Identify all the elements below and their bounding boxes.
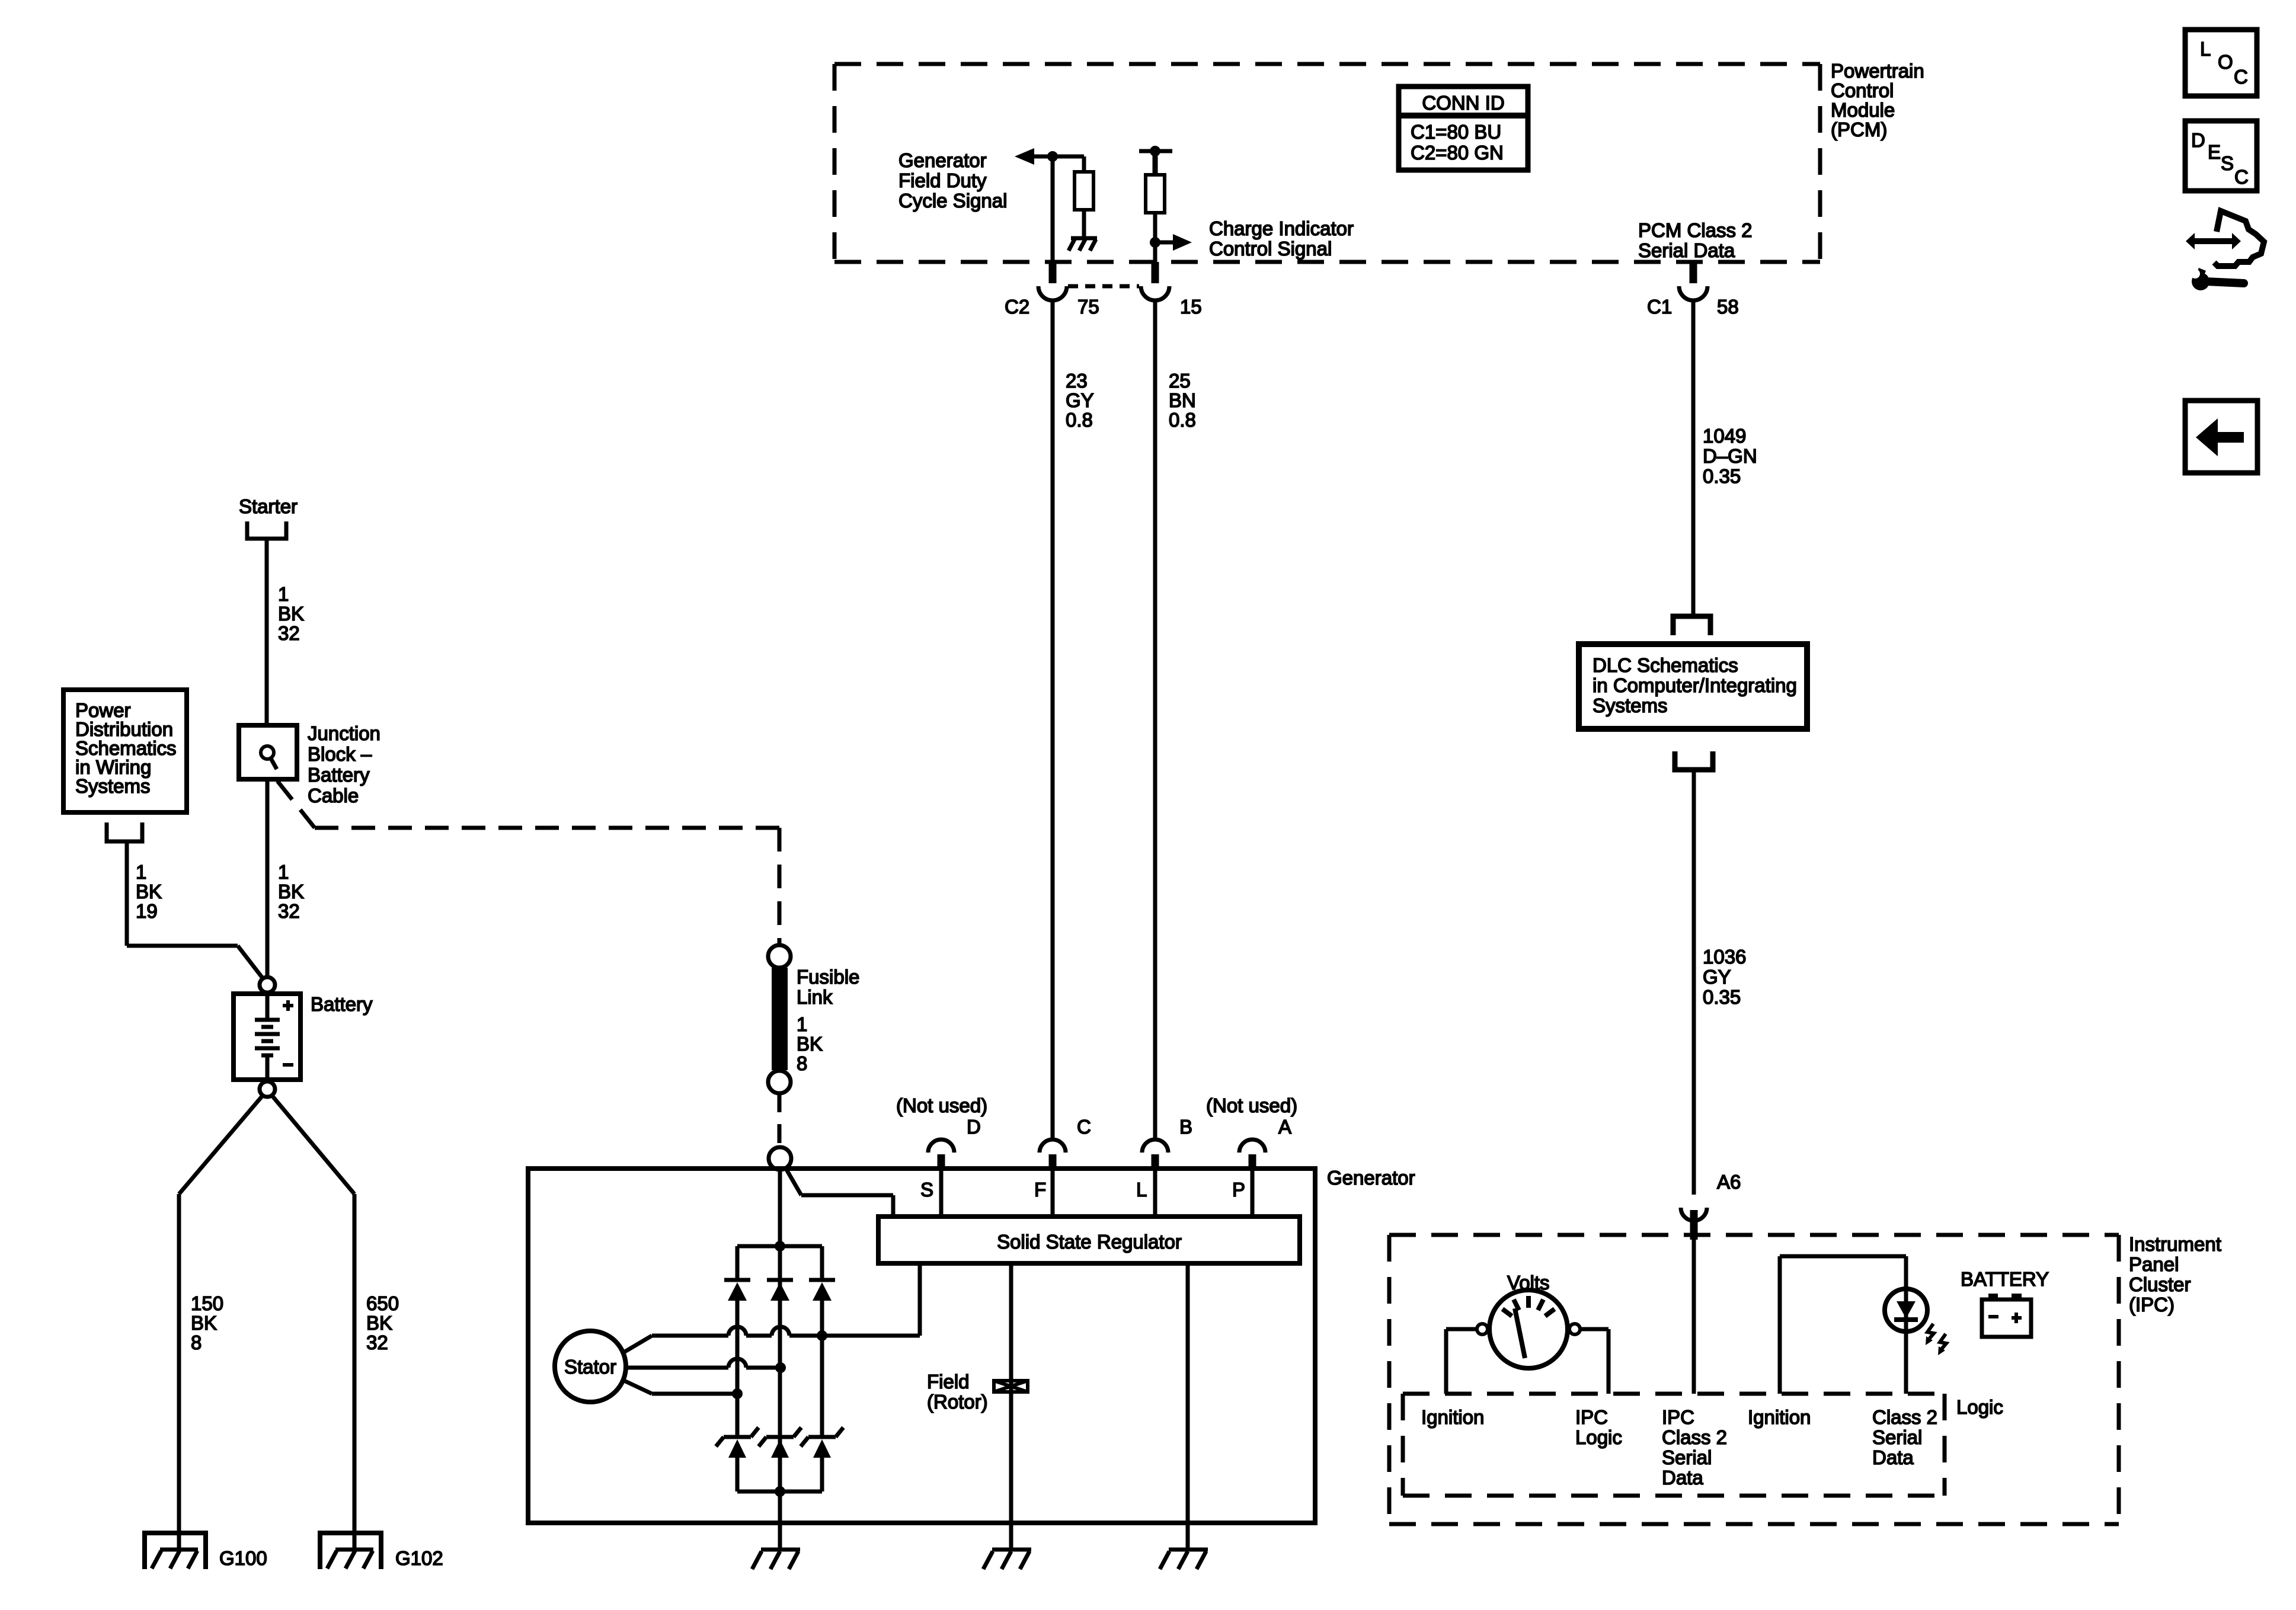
zener Z1 bottom left	[716, 1427, 759, 1458]
wire 1036 GY 0.35 (DLC to IPC A6)	[1692, 770, 1696, 1195]
svg-text:Generator: Generator	[1327, 1167, 1415, 1189]
svg-text:Serial Data: Serial Data	[1638, 239, 1735, 261]
wire 1 BK 32 (starter to junction block)	[265, 539, 269, 725]
svg-text:1: 1	[278, 861, 289, 883]
node junction dot charge indicator	[1150, 237, 1160, 248]
wire stub to resistor R2	[1153, 151, 1158, 175]
svg-text:1036: 1036	[1703, 946, 1746, 968]
svg-text:D: D	[967, 1116, 981, 1138]
svg-text:F: F	[1034, 1179, 1046, 1201]
svg-text:(Not used): (Not used)	[1206, 1094, 1297, 1116]
svg-text:Field Duty: Field Duty	[898, 169, 987, 191]
svg-text:BK: BK	[136, 881, 162, 902]
ground (generator main)	[752, 1550, 800, 1569]
svg-text:Instrument: Instrument	[2129, 1233, 2221, 1255]
label PCM Class 2 Serial Data	[1638, 219, 1753, 261]
svg-text:8: 8	[797, 1052, 807, 1074]
label C2	[1005, 296, 1739, 318]
junction block - battery cable	[239, 725, 297, 779]
connector A6	[1681, 1208, 1707, 1240]
svg-text:150: 150	[191, 1292, 223, 1314]
wire F pin to regulator	[1051, 1169, 1055, 1217]
svg-text:B: B	[1179, 1116, 1192, 1138]
ground (field circuit)	[983, 1550, 1031, 1569]
svg-text:Panel: Panel	[2129, 1253, 2179, 1275]
svg-text:Starter: Starter	[239, 495, 298, 517]
connector pin 15	[1141, 262, 1169, 300]
node phase3 to left diode column	[732, 1388, 743, 1399]
svg-text:E: E	[2208, 141, 2221, 163]
diode bridge top bus	[737, 1244, 822, 1249]
svg-text:0.8: 0.8	[1066, 409, 1093, 431]
svg-text:23: 23	[1066, 370, 1088, 392]
svg-text:O: O	[2218, 51, 2233, 73]
wire 150 BK 8 (battery to G100)	[179, 1096, 263, 1548]
fusible link	[768, 945, 791, 1093]
wire 23 GY 0.8 (C2-75 to generator F)	[1051, 300, 1055, 1141]
arrow Charge Indicator Control Signal (points right)	[1155, 241, 1174, 245]
svg-text:GY: GY	[1066, 389, 1094, 411]
node phase1 to right diode column	[817, 1330, 827, 1341]
svg-text:0.8: 0.8	[1169, 409, 1196, 431]
svg-text:0.35: 0.35	[1703, 986, 1741, 1008]
arrow Generator Field Duty Cycle Signal (points left)	[1015, 148, 1034, 165]
wire gauge to ignition	[1446, 1329, 1477, 1394]
wire regulator to field	[1009, 1263, 1013, 1548]
svg-text:C1: C1	[1647, 296, 1672, 318]
wire gauge to IPC logic	[1580, 1329, 1609, 1394]
svg-text:650: 650	[366, 1292, 399, 1314]
diode D2 top middle	[767, 1280, 793, 1301]
svg-text:IPC: IPC	[1575, 1406, 1608, 1428]
node B+ stub on charge indicator wire	[1139, 149, 1172, 153]
svg-text:Volts: Volts	[1507, 1272, 1550, 1294]
svg-text:1049: 1049	[1703, 425, 1746, 447]
wire 1 BK 32 (junction block to battery)	[266, 779, 270, 977]
svg-text:(Not used): (Not used)	[896, 1094, 987, 1116]
svg-text:C: C	[2234, 166, 2249, 188]
wire P pin to regulator	[1251, 1169, 1255, 1217]
svg-text:BK: BK	[366, 1312, 392, 1334]
svg-text:C1=80 BU: C1=80 BU	[1411, 121, 1501, 143]
svg-text:BK: BK	[191, 1312, 217, 1334]
svg-text:75: 75	[1077, 296, 1099, 318]
icon back arrow box	[2185, 401, 2257, 473]
svg-text:19: 19	[136, 900, 158, 922]
svg-text:Field: Field	[927, 1371, 970, 1393]
svg-text:in Computer/Integrating: in Computer/Integrating	[1593, 674, 1797, 696]
svg-text:Class 2: Class 2	[1662, 1426, 1727, 1448]
svg-text:Cable: Cable	[308, 785, 359, 806]
svg-text:A: A	[1278, 1116, 1291, 1138]
wire stator phase 2	[626, 1359, 781, 1368]
wire PCM internal to C2-75	[1051, 156, 1055, 263]
svg-text:IPC: IPC	[1662, 1406, 1694, 1428]
Solid State Regulator box	[878, 1217, 1300, 1263]
wire main battery bus (junction to ground through bridge)	[778, 1170, 782, 1548]
svg-text:Generator: Generator	[898, 149, 987, 171]
wire battery feed to regulator (S path)	[786, 1169, 893, 1217]
icon DESC box	[2185, 121, 2257, 191]
stator	[555, 1331, 626, 1402]
label Starter	[239, 495, 298, 517]
svg-text:Logic: Logic	[1956, 1396, 2003, 1418]
svg-text:(IPC): (IPC)	[2129, 1294, 2175, 1315]
svg-text:8: 8	[191, 1331, 202, 1353]
connector C1 pin 58	[1679, 262, 1707, 300]
svg-text:BATTERY: BATTERY	[1961, 1268, 2049, 1290]
wire 1049 D-GN 0.35 (C1-58 to DLC)	[1691, 300, 1696, 617]
resistor R2 (inside PCM)	[1146, 175, 1165, 213]
svg-text:L: L	[2200, 38, 2211, 60]
CONN ID table	[1399, 87, 1528, 170]
svg-text:A6: A6	[1717, 1171, 1741, 1193]
svg-text:GY: GY	[1703, 966, 1731, 988]
svg-text:32: 32	[366, 1331, 388, 1353]
svg-text:Battery: Battery	[308, 764, 370, 786]
connector A (not used)	[1239, 1140, 1265, 1170]
svg-text:PCM Class 2: PCM Class 2	[1638, 219, 1753, 241]
svg-text:DLC Schematics: DLC Schematics	[1593, 654, 1738, 676]
node junction circle at generator	[769, 1147, 791, 1170]
svg-text:D–GN: D–GN	[1703, 445, 1757, 467]
wire stator phase 3	[623, 1380, 737, 1394]
svg-text:G102: G102	[395, 1547, 443, 1569]
svg-text:1: 1	[278, 583, 289, 605]
wire S pin to regulator	[939, 1169, 944, 1217]
battery	[234, 977, 300, 1097]
resistor R1 (pull-up inside PCM)	[1075, 172, 1093, 210]
node phase2 to middle diode column	[775, 1362, 786, 1373]
DLC bracket bottom	[1675, 751, 1713, 770]
svg-text:P: P	[1232, 1179, 1245, 1201]
svg-text:C: C	[1077, 1116, 1091, 1138]
svg-text:1: 1	[136, 861, 146, 883]
svg-text:Systems: Systems	[1593, 694, 1668, 716]
svg-text:0.35: 0.35	[1703, 465, 1741, 487]
svg-text:Cycle Signal: Cycle Signal	[898, 190, 1007, 212]
wire dashed (fusible link to generator)	[778, 1093, 782, 1147]
svg-text:Serial: Serial	[1662, 1446, 1712, 1468]
connector C2 pin 75	[1038, 262, 1067, 300]
svg-text:CONN ID: CONN ID	[1422, 92, 1504, 114]
DLC Schematics box	[1579, 644, 1807, 729]
IPC internal labels	[1421, 1396, 2003, 1489]
svg-text:Junction: Junction	[308, 722, 380, 744]
IPC logic dashed box	[1403, 1394, 1945, 1496]
svg-text:BK: BK	[797, 1033, 823, 1055]
svg-text:Ignition: Ignition	[1421, 1406, 1484, 1428]
svg-text:C2=80 GN: C2=80 GN	[1411, 142, 1504, 164]
svg-text:Stator: Stator	[564, 1356, 616, 1378]
PCM dashed box (Powertrain Control Module)	[834, 64, 1820, 262]
label Powertrain Control Module (PCM)	[1831, 60, 1924, 140]
volts gauge	[1477, 1290, 1580, 1368]
wire 25 BN 0.8 (15 to generator L)	[1153, 300, 1157, 1141]
wire connector link dashes C2	[1068, 284, 1139, 289]
svg-text:Data: Data	[1872, 1446, 1914, 1468]
svg-text:BK: BK	[278, 603, 304, 625]
generator box	[528, 1169, 1315, 1523]
bracket below power distribution box	[107, 822, 142, 841]
svg-text:Link: Link	[797, 986, 833, 1008]
component Starter (page-reference bracket)	[247, 521, 286, 539]
svg-text:Module: Module	[1831, 99, 1895, 121]
svg-text:C: C	[2234, 66, 2248, 88]
node junction dot on field duty wire	[1047, 151, 1058, 162]
svg-text:S: S	[920, 1179, 933, 1201]
svg-text:Control Signal: Control Signal	[1209, 238, 1332, 260]
icon LOC box	[2185, 30, 2257, 96]
wire L pin to regulator	[1153, 1169, 1157, 1217]
svg-text:Class 2: Class 2	[1872, 1406, 1937, 1428]
Power Distribution box	[63, 690, 187, 812]
label Charge Indicator Control Signal	[1209, 217, 1354, 260]
LED light arrows	[1926, 1324, 1946, 1355]
label Generator Field Duty Cycle Signal	[898, 149, 1007, 212]
wire stator phase 1	[623, 1327, 920, 1353]
wire A6 to IPC class 2 serial data	[1692, 1240, 1696, 1394]
svg-text:58: 58	[1717, 296, 1739, 318]
diode D3 top right	[809, 1280, 835, 1301]
ground (regulator right)	[1160, 1550, 1208, 1569]
battery indicator icon	[1982, 1294, 2031, 1337]
svg-text:C2: C2	[1005, 296, 1029, 318]
LED charge indicator	[1885, 1289, 1927, 1331]
svg-text:BK: BK	[278, 881, 304, 902]
svg-text:Logic: Logic	[1575, 1426, 1622, 1448]
wire regulator to stator sense	[918, 1263, 922, 1336]
svg-text:Control: Control	[1831, 79, 1894, 101]
wire ignition to charge indicator LED	[1780, 1256, 1906, 1394]
wire branch to resistor R1	[1082, 156, 1086, 172]
wire 650 BK 32 (battery to G102)	[272, 1096, 354, 1548]
svg-text:Charge Indicator: Charge Indicator	[1209, 217, 1354, 239]
wire PCM internal to 15	[1153, 242, 1157, 263]
diode bridge bottom bus	[737, 1490, 822, 1494]
icon vehicle with arrow and wrench	[2186, 211, 2264, 290]
svg-text:15: 15	[1180, 296, 1202, 318]
connector C	[1040, 1140, 1066, 1170]
IPC dashed box (Instrument Panel Cluster)	[1389, 1235, 2119, 1524]
wire regulator to ground right	[1186, 1263, 1190, 1548]
wire 1 BK 19	[127, 841, 264, 980]
svg-text:1: 1	[797, 1013, 807, 1035]
wire dashed battery cable (junction block to fusible link)	[277, 781, 779, 946]
svg-text:Ignition: Ignition	[1748, 1406, 1811, 1428]
svg-text:Serial: Serial	[1872, 1426, 1922, 1448]
field rotor coil	[994, 1381, 1028, 1392]
diode bridge left column	[736, 1246, 740, 1491]
zener Z3 bottom right	[801, 1427, 843, 1458]
svg-text:Data: Data	[1662, 1467, 1703, 1489]
svg-text:BN: BN	[1169, 389, 1196, 411]
svg-text:Solid State Regulator: Solid State Regulator	[997, 1231, 1182, 1253]
svg-text:32: 32	[278, 622, 300, 644]
svg-text:Powertrain: Powertrain	[1831, 60, 1924, 82]
svg-text:S: S	[2221, 152, 2234, 174]
svg-text:Battery: Battery	[311, 993, 373, 1015]
ground (inside PCM)	[1069, 238, 1097, 251]
zener Z2 bottom middle	[759, 1427, 801, 1458]
svg-text:(Rotor): (Rotor)	[927, 1391, 988, 1413]
ground G100	[145, 1533, 206, 1569]
svg-text:Cluster: Cluster	[2129, 1273, 2191, 1295]
svg-text:D: D	[2191, 129, 2205, 151]
svg-text:Fusible: Fusible	[797, 966, 859, 988]
svg-text:L: L	[1136, 1179, 1147, 1201]
ground G102	[320, 1533, 381, 1569]
svg-text:32: 32	[278, 900, 300, 922]
svg-text:25: 25	[1169, 370, 1191, 392]
DLC bracket top	[1673, 616, 1710, 635]
connector B	[1142, 1140, 1168, 1170]
svg-text:G100: G100	[219, 1547, 267, 1569]
svg-text:(PCM): (PCM)	[1831, 119, 1887, 140]
diode bridge right column	[820, 1246, 824, 1491]
svg-text:Systems: Systems	[75, 775, 151, 797]
svg-text:Block –: Block –	[308, 743, 372, 765]
connector D (not used)	[928, 1140, 954, 1170]
diode D1 top left	[724, 1280, 750, 1301]
